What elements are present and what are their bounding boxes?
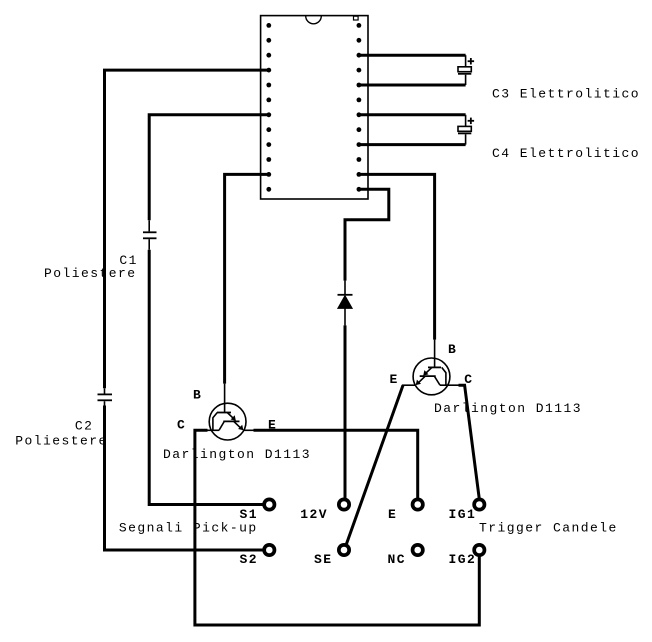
svg-text:Darlington D1113: Darlington D1113	[163, 447, 311, 462]
svg-text:C: C	[464, 372, 473, 387]
svg-text:B: B	[193, 388, 202, 403]
svg-text:Poliestere: Poliestere	[15, 434, 108, 449]
svg-text:B: B	[448, 342, 457, 357]
svg-text:SE: SE	[314, 552, 333, 567]
svg-text:Trigger Candele: Trigger Candele	[479, 521, 618, 536]
svg-text:C3 Elettrolitico: C3 Elettrolitico	[492, 87, 640, 102]
svg-text:IG1: IG1	[449, 507, 477, 522]
svg-text:NC: NC	[388, 552, 407, 567]
svg-text:12V: 12V	[300, 507, 328, 522]
svg-text:Segnali Pick-up: Segnali Pick-up	[119, 521, 258, 536]
svg-text:Darlington D1113: Darlington D1113	[434, 401, 582, 416]
svg-text:E: E	[268, 417, 277, 432]
svg-text:C2: C2	[75, 419, 94, 434]
svg-text:C: C	[177, 417, 186, 432]
svg-text:E: E	[390, 372, 399, 387]
svg-text:S2: S2	[240, 552, 259, 567]
svg-text:Poliestere: Poliestere	[44, 266, 137, 281]
svg-text:S1: S1	[240, 507, 259, 522]
svg-text:IG2: IG2	[449, 552, 477, 567]
svg-text:C4 Elettrolitico: C4 Elettrolitico	[492, 146, 640, 161]
svg-text:E: E	[388, 507, 397, 522]
